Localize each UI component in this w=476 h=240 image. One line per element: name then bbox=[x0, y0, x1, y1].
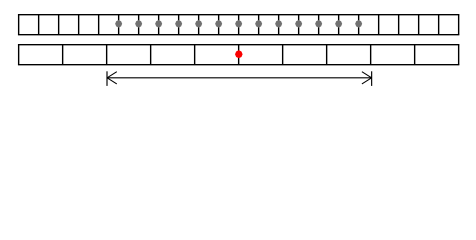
fine ruler division line 13 bbox=[278, 15, 280, 35]
fine ruler division line 16 bbox=[338, 15, 340, 35]
fine ruler division line 3 bbox=[78, 15, 80, 35]
gray sample dot 4 bbox=[175, 20, 182, 28]
fine ruler division line 21 bbox=[438, 15, 440, 35]
fine ruler top edge bbox=[18, 14, 459, 16]
gray sample dot 10 bbox=[295, 20, 302, 28]
fine ruler division line 22 bbox=[458, 15, 460, 35]
span arrow left head lower wing bbox=[107, 78, 117, 84]
coarse ruler division line 3 bbox=[150, 45, 152, 65]
coarse ruler division line 4 bbox=[194, 45, 196, 65]
coarse ruler division line 0 bbox=[18, 45, 20, 65]
fine ruler division line 19 bbox=[398, 15, 400, 35]
gray sample dot 9 bbox=[275, 20, 282, 28]
fine ruler division line 10 bbox=[218, 15, 220, 35]
coarse ruler division line 6 bbox=[282, 45, 284, 65]
fine ruler division line 7 bbox=[158, 15, 160, 35]
fine ruler division line 4 bbox=[98, 15, 100, 35]
gray sample dot 8 bbox=[255, 20, 262, 28]
coarse ruler division line 2 bbox=[106, 45, 108, 65]
fine ruler division line 14 bbox=[298, 15, 300, 35]
coarse ruler division line 1 bbox=[62, 45, 64, 65]
fine ruler division line 1 bbox=[38, 15, 40, 35]
fine ruler division line 17 bbox=[358, 15, 360, 35]
gray sample dot 12 bbox=[335, 20, 342, 28]
red marker dot bbox=[235, 50, 243, 58]
span arrow right head upper wing bbox=[362, 72, 372, 78]
gray sample dot 13 bbox=[355, 20, 362, 28]
fine ruler division line 11 bbox=[238, 15, 240, 35]
span arrow right tick bbox=[371, 71, 373, 86]
span arrow left tick bbox=[106, 71, 108, 86]
coarse ruler division line 8 bbox=[370, 45, 372, 65]
fine ruler division line 20 bbox=[418, 15, 420, 35]
fine ruler division line 6 bbox=[138, 15, 140, 35]
coarse ruler bottom edge bbox=[18, 64, 459, 66]
gray sample dot 11 bbox=[315, 20, 322, 28]
gray sample dot 2 bbox=[135, 20, 142, 28]
coarse ruler division line 10 bbox=[458, 45, 460, 65]
fine ruler division line 0 bbox=[18, 15, 20, 35]
coarse ruler top edge bbox=[18, 44, 459, 46]
coarse ruler division line 9 bbox=[414, 45, 416, 65]
gray sample dot 5 bbox=[195, 20, 202, 28]
coarse ruler division line 5 bbox=[238, 45, 240, 65]
coarse ruler division line 7 bbox=[326, 45, 328, 65]
fine ruler division line 15 bbox=[318, 15, 320, 35]
span arrow left head upper wing bbox=[107, 72, 117, 78]
fine ruler division line 9 bbox=[198, 15, 200, 35]
gray sample dot 7 bbox=[235, 20, 242, 28]
fine ruler division line 8 bbox=[178, 15, 180, 35]
fine ruler division line 5 bbox=[118, 15, 120, 35]
fine ruler division line 12 bbox=[258, 15, 260, 35]
fine ruler bottom edge bbox=[18, 34, 459, 36]
gray sample dot 1 bbox=[115, 20, 122, 28]
gray sample dot 6 bbox=[215, 20, 222, 28]
span arrow shaft bbox=[107, 77, 372, 79]
fine ruler division line 2 bbox=[58, 15, 60, 35]
fine ruler division line 18 bbox=[378, 15, 380, 35]
gray sample dot 3 bbox=[155, 20, 162, 28]
span arrow right head lower wing bbox=[362, 78, 372, 84]
